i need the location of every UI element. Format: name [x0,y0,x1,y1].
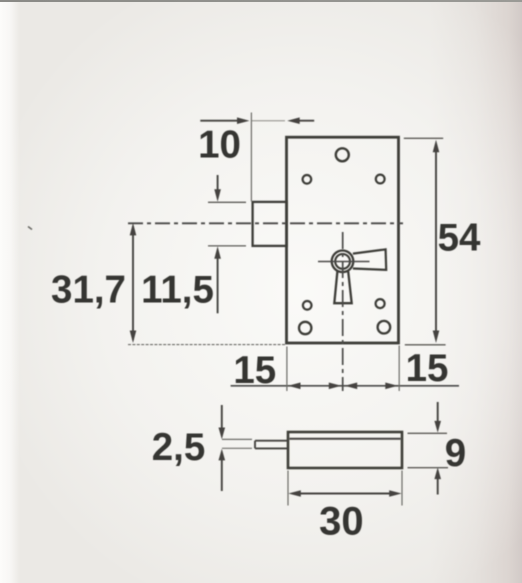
dim 2,5 lower leg [221,453,223,491]
side view bolt top [255,440,288,442]
svg-text:11,5: 11,5 [141,269,214,312]
arrow right at body-right [385,383,398,390]
dim 2,5 arrow down [219,428,226,440]
vertical centerline through keyhole [342,232,344,391]
svg-text:10: 10 [198,124,241,167]
dim 30 arrow right [389,490,402,497]
dim 9 lower leg [437,472,439,495]
dim 10 arrow left-pointing [287,117,300,124]
side view body [288,432,402,468]
keyhole horizontal tick [318,261,370,263]
dim 10 faint middle [252,120,285,122]
hole bottom right [378,321,391,334]
svg-text:9: 9 [445,432,466,475]
svg-text:2,5: 2,5 [152,426,206,469]
dim 2,5 arrow up [219,449,226,461]
tick bolt bottom side view [222,447,252,449]
side view bolt bottom [255,447,288,449]
dim 11,5 upper leg [217,175,219,197]
dim 10 line left [200,120,245,122]
hole lower right [376,299,385,308]
extension line bottom left [128,344,285,346]
extension line side body left [287,471,289,506]
dim 9 arrow up [434,467,441,479]
keyhole circle outer [332,250,354,272]
extension line body left below [286,347,288,392]
dim 11,5 lower leg [217,251,219,313]
tick bolt bottom level [208,245,246,247]
tick side body top [408,432,448,434]
horizontal dash-dot centerline [128,222,403,224]
dim 10 line right [292,120,314,122]
bottom dim line 15/15 [231,385,459,387]
dim 11,5 arrow up [214,246,221,258]
arrow left at centerline [345,383,358,390]
svg-text:30: 30 [319,500,364,544]
svg-text:31,7: 31,7 [51,269,126,312]
dim 11,5 arrow down [214,189,221,202]
lock body front view [287,137,399,343]
tick bolt top side view [222,438,252,440]
tick side body bottom [408,467,449,469]
dim 9 upper leg [437,402,439,429]
dim 30 line [292,493,398,495]
keyhole shaft [334,271,351,303]
dim 54 extension top [404,137,443,139]
hole bottom left [299,322,311,334]
dim 54 vertical line [435,144,437,339]
dim 31,7 vertical line [132,226,134,340]
bolt (latch) front view [253,202,287,246]
keyhole circle inner [335,254,350,269]
hole upper left [303,175,312,184]
dim 9 arrow down [434,421,441,433]
extension line bolt left edge [250,113,252,202]
dim 54 arrow up [433,140,440,153]
svg-text:54: 54 [438,217,481,260]
dim 31,7 arrow up [130,223,137,236]
hole top center [336,148,349,161]
speck left [28,227,32,230]
dim 2,5 upper leg [221,405,223,435]
key bit wing [353,249,386,270]
hole lower left [303,301,312,310]
dim 30 arrow left [288,490,301,497]
extension line side body right [401,471,403,506]
hole upper right [376,175,385,184]
tick bolt top level [208,201,246,203]
arrow left at body-left [288,383,301,390]
dim 31,7 arrow down [130,331,137,344]
dim 54 extension bottom [405,344,446,346]
dim 54 arrow down [433,331,440,344]
arrow right at centerline [329,383,342,390]
svg-text:15: 15 [406,347,449,390]
side view bolt end cap [254,441,256,449]
extension line body right below [398,346,400,392]
dim 10 arrow right-pointing [237,117,250,124]
side view plate inner line [290,438,401,440]
svg-text:15: 15 [233,349,276,392]
